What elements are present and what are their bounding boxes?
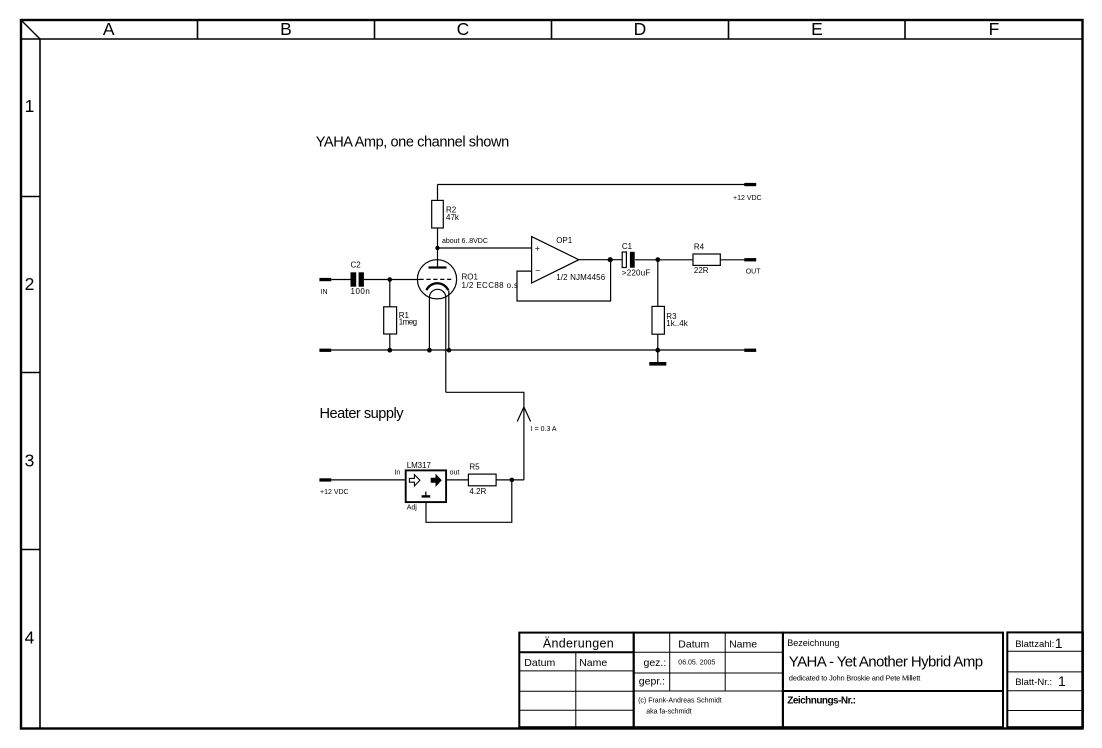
+12 VDC terminal heater bbox=[319, 478, 331, 481]
tube cathode arc bbox=[426, 283, 448, 290]
svg-text:E: E bbox=[811, 19, 823, 39]
tube RO1 envelope bbox=[417, 260, 456, 299]
node junction grid/R1 bbox=[388, 277, 393, 282]
op-amp OP1 bbox=[532, 237, 579, 283]
svg-text:06.05. 2005: 06.05. 2005 bbox=[678, 660, 715, 667]
svg-text:D: D bbox=[634, 19, 647, 39]
svg-text:Name: Name bbox=[729, 639, 757, 651]
svg-text:Datum: Datum bbox=[524, 657, 555, 669]
capacitor C1 bbox=[622, 252, 635, 268]
svg-text:C2: C2 bbox=[351, 261, 362, 270]
junction C1/R3 bbox=[655, 257, 660, 262]
wire heater right leg down to heater supply bbox=[445, 298, 447, 393]
svg-text:gez.:: gez.: bbox=[644, 657, 667, 669]
resistor R4 bbox=[693, 254, 720, 265]
svg-text:about 6..8VDC: about 6..8VDC bbox=[442, 238, 488, 245]
svg-text:LM317: LM317 bbox=[407, 461, 432, 470]
svg-text:4: 4 bbox=[25, 627, 35, 647]
svg-text:1: 1 bbox=[25, 96, 35, 116]
svg-text:F: F bbox=[989, 19, 1000, 39]
wire node to op-amp + input bbox=[438, 247, 532, 249]
svg-text:1: 1 bbox=[1055, 635, 1063, 651]
wire node to R1 bbox=[389, 280, 391, 307]
node junction anode bbox=[435, 246, 439, 250]
wire heater left leg to ground bbox=[428, 298, 430, 351]
svg-text:YAHA Amp, one channel shown: YAHA Amp, one channel shown bbox=[316, 135, 510, 151]
title block anderungen section bbox=[519, 633, 633, 728]
svg-text:R4: R4 bbox=[694, 243, 705, 252]
ground symbol bbox=[649, 350, 666, 366]
ground terminal left bbox=[319, 349, 331, 352]
wire +12VDC to LM317 bbox=[331, 479, 405, 481]
svg-text:4.2R: 4.2R bbox=[469, 487, 486, 496]
column dividers header bbox=[198, 19, 906, 39]
svg-text:100n: 100n bbox=[351, 287, 370, 296]
wire R2 to node bbox=[437, 228, 439, 248]
svg-text:1/2 ECC88 o.s: 1/2 ECC88 o.s bbox=[462, 281, 519, 290]
regulator U LM317 bbox=[406, 470, 446, 502]
wire R4 to OUT bbox=[720, 259, 744, 261]
wire R3 to rail bbox=[657, 334, 659, 350]
svg-text:47k: 47k bbox=[446, 213, 460, 222]
svg-text:Zeichnungs-Nr.:: Zeichnungs-Nr.: bbox=[787, 696, 856, 707]
LM317 open arrow icon bbox=[409, 475, 420, 486]
svg-text:B: B bbox=[280, 19, 292, 39]
svg-text:Bezeichnung: Bezeichnung bbox=[787, 638, 839, 648]
svg-text:dedicated to John Broskie and: dedicated to John Broskie and Pete Mille… bbox=[789, 674, 921, 683]
svg-text:1meg: 1meg bbox=[399, 317, 417, 326]
wire R5 to heater node bbox=[496, 479, 524, 481]
wire IN to C2 bbox=[331, 279, 350, 281]
svg-text:out: out bbox=[450, 470, 460, 477]
OUT terminal bbox=[744, 258, 756, 261]
IN terminal bbox=[319, 278, 331, 281]
svg-text:OUT: OUT bbox=[746, 269, 762, 276]
svg-text:−: − bbox=[535, 266, 540, 276]
svg-text:>220uF: >220uF bbox=[622, 268, 651, 277]
svg-text:R5: R5 bbox=[469, 462, 480, 471]
svg-text:3: 3 bbox=[25, 450, 35, 470]
svg-text:+12 VDC: +12 VDC bbox=[320, 489, 349, 496]
svg-text:A: A bbox=[103, 19, 115, 39]
wire R1 to ground rail bbox=[389, 334, 391, 350]
svg-text:Heater supply: Heater supply bbox=[320, 406, 405, 422]
+12V top rail wire bbox=[438, 184, 746, 186]
ground rail wire bbox=[331, 349, 744, 351]
svg-text:aka fa-schmidt: aka fa-schmidt bbox=[646, 708, 692, 715]
resistor R5 bbox=[468, 474, 496, 486]
junction R1 ground bbox=[387, 348, 392, 353]
svg-text:Adj: Adj bbox=[407, 504, 418, 511]
junction heater left bbox=[427, 348, 432, 353]
current arrow I=0.3A bbox=[517, 407, 530, 422]
svg-text:+: + bbox=[535, 243, 540, 253]
+12V terminal top right bbox=[744, 183, 756, 186]
svg-text:1/2 NJM4456: 1/2 NJM4456 bbox=[556, 273, 606, 282]
column labels A-F bbox=[103, 19, 999, 39]
junction heater output node bbox=[510, 478, 515, 483]
svg-text:Name: Name bbox=[579, 657, 607, 669]
svg-text:1: 1 bbox=[1058, 673, 1066, 689]
svg-text:YAHA - Yet Another Hybrid Amp: YAHA - Yet Another Hybrid Amp bbox=[789, 654, 983, 671]
wire cathode lead to ground bbox=[448, 290, 450, 350]
svg-text:+12 VDC: +12 VDC bbox=[733, 195, 762, 202]
tube anode plate bar bbox=[429, 266, 447, 268]
tube grid dashed line bbox=[420, 278, 454, 280]
wire top rail to R2 bbox=[437, 185, 439, 201]
title block Bezeichnung section bbox=[783, 633, 1003, 691]
title block middle section gez/gepr bbox=[634, 633, 783, 728]
resistor R1 bbox=[384, 307, 397, 334]
svg-text:In: In bbox=[394, 469, 400, 476]
row labels 1-4 bbox=[25, 96, 35, 648]
title block Blattzahl column bbox=[1007, 632, 1083, 727]
heater supply connection wire bbox=[446, 392, 524, 480]
wire node to R3 bbox=[657, 260, 659, 307]
wire LM317 out to R5 bbox=[446, 479, 469, 481]
svg-text:2: 2 bbox=[25, 274, 35, 294]
ground terminal right bbox=[744, 349, 756, 352]
svg-text:Blatt-Nr.:: Blatt-Nr.: bbox=[1015, 677, 1052, 688]
wire C1 to R4 bbox=[635, 259, 693, 261]
svg-text:Änderungen: Änderungen bbox=[543, 637, 614, 651]
wire op-amp output bbox=[579, 259, 622, 261]
svg-text:22R: 22R bbox=[694, 266, 709, 275]
adj feedback wire bbox=[426, 480, 512, 522]
svg-text:IN: IN bbox=[321, 289, 328, 296]
junction op-amp output bbox=[608, 257, 613, 262]
svg-text:gepr.:: gepr.: bbox=[639, 676, 665, 688]
title block Zeichnungs-Nr section bbox=[783, 691, 1003, 727]
svg-text:C: C bbox=[457, 19, 470, 39]
svg-text:Datum: Datum bbox=[678, 639, 709, 651]
junction cathode bbox=[447, 348, 452, 353]
tube heater arch bbox=[429, 289, 445, 297]
feedback wire loop bbox=[517, 260, 611, 301]
svg-text:C1: C1 bbox=[622, 242, 633, 251]
svg-text:Blattzahl:: Blattzahl: bbox=[1015, 639, 1054, 650]
resistor R2 bbox=[432, 200, 444, 228]
capacitor C2 bbox=[351, 272, 364, 286]
LM317 filled arrow icon bbox=[431, 475, 441, 486]
svg-text:(c) Frank-Andreas Schmidt: (c) Frank-Andreas Schmidt bbox=[638, 698, 722, 705]
svg-text:I = 0.3 A: I = 0.3 A bbox=[531, 426, 557, 433]
svg-text:1k..4k: 1k..4k bbox=[666, 319, 688, 328]
LM317 adj pin marker bbox=[422, 492, 431, 497]
resistor R3 bbox=[652, 306, 664, 334]
wire C2 to tube grid bbox=[364, 279, 420, 281]
svg-text:OP1: OP1 bbox=[556, 236, 573, 245]
wire node to tube plate bbox=[437, 248, 439, 268]
junction R3 ground bbox=[655, 348, 660, 353]
row dividers sidebar bbox=[20, 197, 40, 550]
